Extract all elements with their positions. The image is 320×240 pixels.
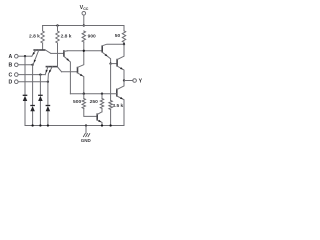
wire phase-splitter collector node [67, 50, 101, 52]
junction rail/B clamp [31, 124, 33, 126]
svg-text:B: B [9, 63, 13, 69]
wire to output Y [124, 80, 133, 82]
junction rail/ground tap [85, 124, 87, 126]
wire Q1 collector to Q3 base [51, 52, 63, 54]
svg-text:3.5 k: 3.5 k [112, 103, 123, 109]
junction C/clamp bus [39, 73, 41, 75]
svg-text:900: 900 [88, 34, 96, 40]
input terminal A [9, 54, 19, 60]
resistor R7 3.5k (Q6 base bleed) [109, 64, 112, 126]
wire input A [18, 55, 32, 57]
wire phase-splitter emitter node to Q7 base [70, 93, 116, 95]
transistor Q4 phase splitter (lower) [78, 51, 84, 94]
svg-text:250: 250 [90, 99, 98, 105]
resistor R6 250 (squaring collector) [100, 94, 103, 112]
resistor R4 50 (output collector) [122, 26, 125, 45]
svg-text:2.8 k: 2.8 k [29, 34, 40, 40]
junction B/clamp bus [31, 64, 33, 66]
transistor Q5 Darlington driver [102, 44, 124, 63]
resistor R3 900 (phase-splitter collector) [82, 31, 85, 51]
resistor R5 500 (squaring base) [82, 94, 96, 117]
transistor Q2 multi-emitter input (C,D) [45, 67, 61, 82]
wire input D [18, 81, 48, 83]
junction rail/R7 [109, 124, 111, 126]
transistor Q1 multi-emitter input (A,B) [32, 50, 51, 65]
svg-text:500: 500 [73, 99, 81, 105]
junction 500/emitter node [83, 93, 85, 95]
junction 50/Q5 collector [123, 43, 125, 45]
junction R2/rail [56, 24, 58, 26]
ground [81, 126, 92, 143]
junction 250/emitter node [101, 93, 103, 95]
svg-text:2.8 k: 2.8 k [61, 34, 72, 40]
transistor Q8 squaring network [97, 112, 102, 126]
resistor R2 2.8k (C/D input base) [56, 26, 59, 67]
wire clamp bus A [24, 56, 26, 125]
wire ground rail [25, 125, 124, 127]
junction A/clamp bus [24, 55, 26, 57]
input terminal B [9, 63, 19, 69]
Vcc terminal [82, 12, 86, 16]
junction rail/C clamp [39, 124, 41, 126]
input terminal D [9, 80, 19, 86]
junction Q5 emitter / Q6 base / 3.5k [109, 62, 111, 64]
junction output Y node [123, 79, 125, 81]
junction 900/collector node [83, 50, 85, 52]
wire Q2 collector to Q4 base [62, 71, 77, 73]
wire Q5 emitter to Q6 base [111, 63, 117, 65]
wire clamp bus B [32, 65, 34, 126]
wire input C [18, 74, 45, 76]
diode D2 input B clamp [30, 106, 35, 112]
diode D1 input A clamp [23, 95, 28, 101]
junction Vcc/rail [83, 24, 85, 26]
svg-text:Y: Y [139, 78, 143, 84]
wire input B [18, 64, 33, 66]
wire clamp bus C [39, 75, 41, 126]
svg-text:D: D [9, 80, 13, 86]
svg-text:50: 50 [115, 33, 121, 39]
output terminal Y [133, 78, 143, 84]
transistor Q3 phase splitter (upper) [64, 50, 71, 93]
svg-text:GND: GND [81, 138, 92, 143]
junction rail/D clamp [47, 124, 49, 126]
svg-text:C: C [9, 73, 13, 79]
input terminal C [9, 73, 19, 79]
diode D4 input D clamp [46, 106, 51, 112]
diode D3 input C clamp [38, 95, 43, 101]
wire top Vcc rail [43, 25, 124, 27]
wire Vcc stub [83, 15, 85, 25]
svg-text:A: A [9, 54, 13, 60]
transistor Q6 output pull-up [117, 44, 124, 80]
resistor R1 2.8k (A/B input base) [41, 26, 44, 51]
transistor Q7 output pull-down [117, 81, 124, 126]
wire clamp bus D [47, 82, 49, 126]
junction rail/Q8 emitter [101, 124, 103, 126]
junction D/clamp bus [47, 81, 49, 83]
